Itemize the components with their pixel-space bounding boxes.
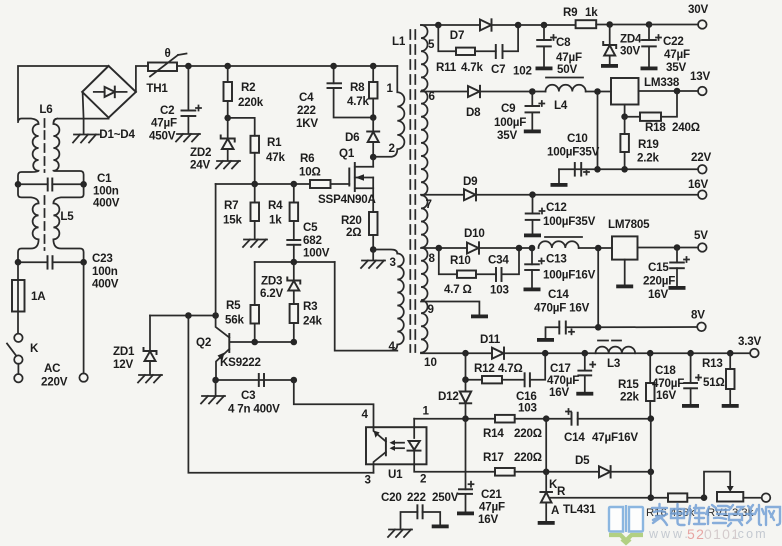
svg-text:R11: R11 xyxy=(436,61,457,74)
svg-text:9: 9 xyxy=(428,303,435,316)
inductor L4 xyxy=(532,78,611,113)
svg-text:12V: 12V xyxy=(113,358,133,371)
ground: Q2 emitter (hatched) xyxy=(201,380,225,404)
svg-text:102: 102 xyxy=(513,65,532,78)
svg-text:100µF35V: 100µF35V xyxy=(547,146,600,159)
svg-text:ZD3: ZD3 xyxy=(261,275,283,288)
capacitor C17 470uF 16V electrolytic xyxy=(547,353,595,399)
svg-text:D8: D8 xyxy=(466,106,481,119)
svg-text:22k: 22k xyxy=(620,391,639,404)
wire: rail to 30V terminal xyxy=(649,24,698,26)
svg-text:L4: L4 xyxy=(554,99,568,112)
node: HV rail at C2 xyxy=(185,63,192,70)
wire: 22V rail xyxy=(559,168,698,170)
svg-text:100µF: 100µF xyxy=(494,116,526,129)
wire: R14 row xyxy=(414,418,495,420)
resistor R8 4.7k xyxy=(347,66,378,118)
svg-text:5V: 5V xyxy=(694,229,708,242)
wire: C14 left column down to TL431 K xyxy=(545,419,547,472)
capacitor C12 100uF35V electrolytic xyxy=(526,195,596,234)
svg-text:L3: L3 xyxy=(607,357,621,370)
diode D6 xyxy=(345,118,379,158)
svg-text:C4: C4 xyxy=(299,91,314,104)
svg-text:35V: 35V xyxy=(497,129,517,142)
svg-text:TH1: TH1 xyxy=(146,82,168,95)
svg-text:AC: AC xyxy=(44,362,61,375)
transformer L1 primary winding 1-2 xyxy=(373,66,404,157)
svg-text:13V: 13V xyxy=(690,70,710,83)
wire: opto pin1 stub xyxy=(413,419,415,428)
capacitor C15 220uF 16V electrolytic xyxy=(643,248,689,302)
node: snubber right pin10 xyxy=(542,350,549,357)
ground: pin9 (bar) xyxy=(471,315,488,319)
node: R18 right on 13V rail xyxy=(674,88,681,95)
node: D12/R12 branch on pin10 xyxy=(462,350,469,357)
node: ZD4 junction xyxy=(606,21,613,28)
svg-text:47µF: 47µF xyxy=(664,48,690,61)
wire: rail D7 to R9 xyxy=(518,24,576,26)
wire: pin9 stub xyxy=(421,302,479,315)
ground: C17 (bar) xyxy=(576,392,593,396)
ground: ZD2 (hatched) xyxy=(216,161,240,169)
node: R2/ZD2/R1 junction xyxy=(224,115,231,122)
svg-text:A: A xyxy=(551,504,560,517)
svg-text:2: 2 xyxy=(420,473,426,486)
ground: C20 left (hatched) xyxy=(388,530,412,538)
wire: gate drive row xyxy=(216,183,310,185)
wire: vertical 215.6 up to gate row xyxy=(215,184,217,316)
svg-text:22V: 22V xyxy=(691,151,711,164)
svg-text:C14: C14 xyxy=(564,431,585,444)
svg-text:R15: R15 xyxy=(618,378,639,391)
label: AC 220V xyxy=(41,362,68,389)
node: 8V row junction xyxy=(595,324,602,331)
wire: Q2 base row xyxy=(230,341,294,343)
terminal: 16V output xyxy=(688,178,708,199)
thermistor TH1 xyxy=(146,47,186,95)
node: R12 branch bottom xyxy=(462,376,469,383)
capacitor C1 xyxy=(18,172,120,210)
wire: KS9222 node down to opto pin4 xyxy=(294,380,374,427)
svg-text:1k: 1k xyxy=(585,6,598,19)
svg-text:24k: 24k xyxy=(303,315,322,328)
svg-text:R4: R4 xyxy=(268,199,283,212)
svg-text:R9: R9 xyxy=(563,6,578,19)
resistor R19 2.2k xyxy=(620,117,659,170)
svg-text:KS9222: KS9222 xyxy=(220,356,261,369)
resistor R13 51ohm xyxy=(702,353,735,404)
resistor R5 56k xyxy=(225,262,259,342)
svg-text:4 7n 400V: 4 7n 400V xyxy=(228,403,280,416)
svg-text:30V: 30V xyxy=(688,3,708,16)
svg-text:R5: R5 xyxy=(226,299,241,312)
node: 22V rail / R19 xyxy=(621,166,628,173)
svg-text:52: 52 xyxy=(687,526,705,542)
resistor R2 220k xyxy=(224,66,264,118)
inductor L (5V filter) xyxy=(539,237,613,248)
svg-text:16V: 16V xyxy=(478,513,498,526)
resistor R18 240ohm xyxy=(625,91,700,134)
resistor R20 2ohm xyxy=(341,212,378,250)
wire: pin6 rail to D8 xyxy=(421,91,468,93)
capacitor C7 102 (snubber) xyxy=(491,25,532,78)
svg-text:D10: D10 xyxy=(464,227,485,240)
wire: bridge DC- drop xyxy=(83,92,84,133)
node: 8V takeoff after inductor xyxy=(595,245,602,252)
ground: R13 (bar) xyxy=(722,404,739,408)
terminal: 5V output xyxy=(694,229,708,252)
svg-text:R14: R14 xyxy=(483,427,504,440)
svg-text:400V: 400V xyxy=(92,278,119,291)
capacitor C13 100uF16V electrolytic xyxy=(525,248,595,288)
svg-text:L6: L6 xyxy=(39,103,53,116)
svg-text:24V: 24V xyxy=(190,159,210,172)
node: C14 right / R15 bottom xyxy=(648,415,655,422)
wire: pin4 drop from row 262 xyxy=(335,262,398,351)
svg-text:www.: www. xyxy=(648,527,691,541)
node: C13 junction xyxy=(529,245,536,252)
resistor R17 220ohm xyxy=(483,451,599,476)
node: R8/C4/D6 junction xyxy=(370,114,377,121)
transformer L1 primary winding 3-4 xyxy=(389,254,404,354)
svg-text:16V: 16V xyxy=(549,386,569,399)
svg-text:10: 10 xyxy=(424,356,437,369)
terminal: 8V output xyxy=(691,309,706,332)
svg-text:1: 1 xyxy=(387,82,394,95)
svg-text:2.2k: 2.2k xyxy=(637,152,660,165)
wire: LM338 input down to 22V rail xyxy=(597,92,599,170)
capacitor C34 103 (snubber) xyxy=(488,248,519,297)
wire: pin7 16V rail xyxy=(421,194,464,196)
resistor R10 4.7ohm (snubber) xyxy=(439,248,496,296)
wire: R17 row from opto pin2 xyxy=(414,464,495,472)
node: C23 right junction xyxy=(80,259,87,266)
node: D12 bottom / R14 row xyxy=(462,415,469,422)
node: feedback column / R divider row xyxy=(648,494,655,501)
svg-text:R10: R10 xyxy=(450,254,471,267)
watermark: book logo xyxy=(609,505,643,544)
svg-text:C22: C22 xyxy=(663,35,684,48)
transformer L1 secondary winding 5-10 xyxy=(421,25,437,369)
wire: row 262 (C5/ZD3/R5 to xfmr pin4 drop) xyxy=(255,261,335,263)
wire: top AC wire to bridge xyxy=(18,66,109,120)
svg-text:L1: L1 xyxy=(392,35,406,48)
node: ZD1 rail junction xyxy=(185,312,192,319)
diode D5 xyxy=(575,454,651,478)
svg-text:100n: 100n xyxy=(92,265,118,278)
svg-text:U1: U1 xyxy=(388,468,403,481)
svg-text:56k: 56k xyxy=(225,314,244,327)
svg-text:220V: 220V xyxy=(41,376,68,389)
capacitor C10 100uF35V electrolytic xyxy=(547,132,600,183)
svg-text:400V: 400V xyxy=(93,197,120,210)
svg-text:220Ω: 220Ω xyxy=(514,451,542,464)
svg-text:3: 3 xyxy=(365,474,372,487)
svg-text:C2: C2 xyxy=(160,104,174,117)
regulator LM338 xyxy=(611,76,698,117)
svg-text:R: R xyxy=(557,485,566,498)
svg-text:103: 103 xyxy=(490,284,509,297)
resistor R4 1k xyxy=(268,184,298,240)
node: R5 bottom / base row xyxy=(251,339,258,346)
svg-text:C3: C3 xyxy=(241,389,256,402)
svg-text:220k: 220k xyxy=(238,96,264,109)
svg-text:240Ω: 240Ω xyxy=(672,121,700,134)
svg-text:C12: C12 xyxy=(546,201,567,214)
node: snubber right pin8 xyxy=(516,245,523,252)
MOSFET Q1 SSP4N90A xyxy=(318,147,377,212)
ground: C21 (bar) xyxy=(457,512,474,516)
zener ZD1 12V xyxy=(113,316,157,375)
ground: C8 (bar) xyxy=(536,67,553,71)
terminal: adjust output xyxy=(762,493,771,502)
wire: pin3 from R20 node xyxy=(373,250,397,254)
diode D8 xyxy=(466,86,532,119)
svg-text:R6: R6 xyxy=(300,152,315,165)
ground: ZD4 (bar) xyxy=(601,64,618,68)
switch K xyxy=(7,334,39,374)
node: LM338 input / C10 column xyxy=(594,88,601,95)
svg-text:L5: L5 xyxy=(60,210,74,223)
AC terminal right xyxy=(79,373,87,381)
node: C5/ZD3 junction xyxy=(291,259,298,266)
resistor R15 22k xyxy=(618,353,655,419)
svg-text:θ: θ xyxy=(164,47,170,60)
capacitor C18 470uF 16V electrolytic xyxy=(652,353,701,404)
node: C18 junction xyxy=(687,350,694,357)
regulator LM7805 xyxy=(608,218,698,285)
svg-text:15k: 15k xyxy=(223,214,242,227)
node: C17 junction xyxy=(582,350,589,357)
svg-text:C7: C7 xyxy=(491,63,505,76)
capacitor C21 47uF 16V electrolytic xyxy=(459,419,505,526)
node: C15 junction xyxy=(674,244,681,251)
svg-text:220Ω: 220Ω xyxy=(514,427,542,440)
shunt regulator TL431 xyxy=(540,472,650,521)
svg-text:450V: 450V xyxy=(149,130,176,143)
zener ZD3 6.2V xyxy=(260,262,300,304)
ground: R7 (hatched) xyxy=(243,240,267,248)
node: R14 right / C14 left xyxy=(543,415,550,422)
svg-text:47k: 47k xyxy=(266,151,285,164)
svg-text:2Ω: 2Ω xyxy=(346,226,361,239)
ground: C20 right (bar) xyxy=(432,525,449,529)
opto-coupler U1 xyxy=(362,405,430,487)
potentiometer RV1 3.3k xyxy=(704,472,762,519)
svg-text:K: K xyxy=(30,342,39,355)
ground: C18 (bar) xyxy=(682,404,699,408)
svg-text:C9: C9 xyxy=(501,102,516,115)
svg-text:16V: 16V xyxy=(688,178,708,191)
node: C1 right junction xyxy=(80,181,87,188)
capacitor C2 electrolytic xyxy=(149,66,201,143)
svg-text:R13: R13 xyxy=(702,357,723,370)
svg-text:8: 8 xyxy=(429,252,436,265)
svg-text:ZD1: ZD1 xyxy=(113,345,135,358)
svg-text:4: 4 xyxy=(362,408,369,421)
diode D11 xyxy=(480,333,750,359)
wire: to 8V terminal xyxy=(598,326,697,328)
svg-text:C8: C8 xyxy=(556,36,571,49)
capacitor C20 222 250V (Y-cap) xyxy=(381,491,459,529)
capacitor C4 222 1KV xyxy=(296,66,373,130)
capacitor C3 4.7n 400V xyxy=(228,374,280,416)
transistor Q2 KS9222 xyxy=(196,316,261,381)
svg-text:222: 222 xyxy=(297,104,316,117)
node: R15 junction xyxy=(647,350,654,357)
node: LM338 adj junction xyxy=(621,113,628,120)
node: TL431 cathode row xyxy=(543,469,550,476)
svg-text:222: 222 xyxy=(407,491,426,504)
node: D5 cathode / feedback column xyxy=(648,469,655,476)
ground: C12 (bar) xyxy=(524,234,541,238)
capacitor C5 682 100V xyxy=(287,221,329,262)
svg-text:D9: D9 xyxy=(463,175,478,188)
svg-text:47µF: 47µF xyxy=(479,501,505,514)
svg-text:4.7k: 4.7k xyxy=(347,95,370,108)
svg-text:R8: R8 xyxy=(350,81,365,94)
svg-text:30V: 30V xyxy=(620,45,640,58)
svg-text:R3: R3 xyxy=(303,300,318,313)
zener ZD2 24V xyxy=(190,118,235,172)
ground: R20 source (hatched) xyxy=(361,250,385,269)
ground: C10 (bar) xyxy=(551,183,568,187)
svg-text:D5: D5 xyxy=(575,454,590,467)
node: R16/RV1 junction xyxy=(701,494,708,501)
svg-text:C10: C10 xyxy=(567,132,588,145)
wire: TH1 to HV rail xyxy=(177,65,397,67)
svg-text:1KV: 1KV xyxy=(296,117,318,130)
node: D7 cathode / snubber right xyxy=(515,22,522,29)
capacitor C23 xyxy=(18,252,119,291)
wire: pin8 5V rail xyxy=(421,247,467,249)
svg-text:C5: C5 xyxy=(303,221,318,234)
wire: feedback column xyxy=(650,419,652,498)
svg-text:51Ω: 51Ω xyxy=(703,376,725,389)
svg-text:C13: C13 xyxy=(546,253,567,266)
ground: C15 (bar) xyxy=(669,286,686,290)
watermark: text 520101.com xyxy=(648,526,768,542)
svg-text:C18: C18 xyxy=(655,364,676,377)
svg-text:D1~D4: D1~D4 xyxy=(99,128,135,141)
node: HV rail at R8 xyxy=(370,63,377,70)
svg-text:Q2: Q2 xyxy=(196,336,211,349)
svg-text:16V: 16V xyxy=(656,389,676,402)
svg-text:C23: C23 xyxy=(92,252,113,265)
node: R3 bottom / base row xyxy=(291,339,298,346)
svg-text:100V: 100V xyxy=(303,247,330,260)
wire: ZD1 rail down to opto pin3 xyxy=(188,316,373,473)
node: HV rail at C4 xyxy=(330,63,337,70)
ground: TL431 anode (bar) xyxy=(538,521,555,525)
svg-text:D6: D6 xyxy=(345,131,360,144)
svg-text:C1: C1 xyxy=(97,172,112,185)
node: R20 bottom / pin3 xyxy=(370,246,377,253)
node: gate row / R4 column xyxy=(291,181,298,188)
diode D10 xyxy=(464,227,532,254)
svg-text:C20: C20 xyxy=(381,491,402,504)
zener ZD4 30V xyxy=(603,25,642,65)
svg-text:C34: C34 xyxy=(488,254,509,267)
svg-text:SSP4N90A: SSP4N90A xyxy=(318,193,377,206)
ground: C9 (bar) xyxy=(524,130,541,134)
inductor L3 xyxy=(596,341,636,371)
svg-text:C14: C14 xyxy=(548,288,569,301)
node: HV rail at R2 xyxy=(224,63,231,70)
svg-text:R18: R18 xyxy=(645,121,666,134)
transformer L1 core (dashed) xyxy=(392,30,415,352)
resistor R14 220ohm xyxy=(483,415,546,440)
node: C3 right xyxy=(291,377,298,384)
svg-text:470µF 16V: 470µF 16V xyxy=(534,302,590,315)
svg-text:220µF: 220µF xyxy=(643,275,675,288)
node: Q2 collector junction xyxy=(212,312,219,319)
svg-text:D12: D12 xyxy=(438,390,459,403)
svg-text:47µF16V: 47µF16V xyxy=(592,431,638,444)
svg-text:2: 2 xyxy=(389,142,395,155)
capacitor C14 47uF16V (feedback) xyxy=(546,409,651,444)
svg-text:.com: .com xyxy=(732,527,768,541)
wire: pin10 3.3V rail xyxy=(421,352,492,354)
svg-text:R19: R19 xyxy=(638,138,659,151)
ground: bridge DC- (hatched) xyxy=(73,135,99,143)
node: C8 junction xyxy=(541,22,548,29)
node: C3 left xyxy=(212,377,219,384)
svg-text:50V: 50V xyxy=(557,63,577,76)
terminal: 22V output xyxy=(691,151,711,174)
node: C22 junction xyxy=(646,21,653,28)
diode D7 xyxy=(450,19,518,42)
capacitor C22 47uF 35V electrolytic xyxy=(642,25,690,75)
node: C1 left junction xyxy=(15,181,22,188)
AC terminal left xyxy=(14,374,22,382)
svg-text:100µF16V: 100µF16V xyxy=(543,269,596,282)
svg-text:6.2V: 6.2V xyxy=(260,287,284,300)
node: 22V rail / C10 xyxy=(594,166,601,173)
svg-text:3.3V: 3.3V xyxy=(738,335,762,348)
svg-text:35V: 35V xyxy=(666,61,686,74)
wire: bridge DC+ to TH1 xyxy=(136,66,148,92)
diode D9 xyxy=(463,175,698,200)
capacitor C16 103 (snubber) xyxy=(516,353,545,414)
resistor R1 47k xyxy=(251,136,286,184)
svg-text:4.7 Ω: 4.7 Ω xyxy=(444,283,472,296)
svg-text:4.7k: 4.7k xyxy=(461,61,484,74)
node: C23 left junction xyxy=(15,259,22,266)
resistor R6 10ohm xyxy=(299,152,349,188)
svg-text:1k: 1k xyxy=(269,214,282,227)
ground: C13 (bar) xyxy=(524,288,541,292)
svg-text:C15: C15 xyxy=(648,261,669,274)
node: R13 junction xyxy=(727,350,734,357)
node: C9 junction xyxy=(529,88,536,95)
ground: C22 (bar) xyxy=(641,67,658,71)
ground: C2 (hatched) xyxy=(176,134,200,142)
terminal: 3.3V output xyxy=(738,335,762,357)
inductor L6 common-mode choke xyxy=(18,103,84,184)
resistor R16 468k xyxy=(646,493,704,519)
svg-text:4.7Ω: 4.7Ω xyxy=(498,362,523,375)
resistor R9 1k xyxy=(563,6,649,28)
terminal: 30V output xyxy=(688,3,708,29)
resistor R7 15k xyxy=(223,184,259,239)
svg-text:1A: 1A xyxy=(31,290,46,303)
node: snubber left pin8 xyxy=(436,245,443,252)
inductor L5 common-mode choke xyxy=(18,184,84,263)
diode D12 xyxy=(438,380,471,419)
svg-text:7: 7 xyxy=(426,198,432,211)
svg-text:R12: R12 xyxy=(474,362,495,375)
